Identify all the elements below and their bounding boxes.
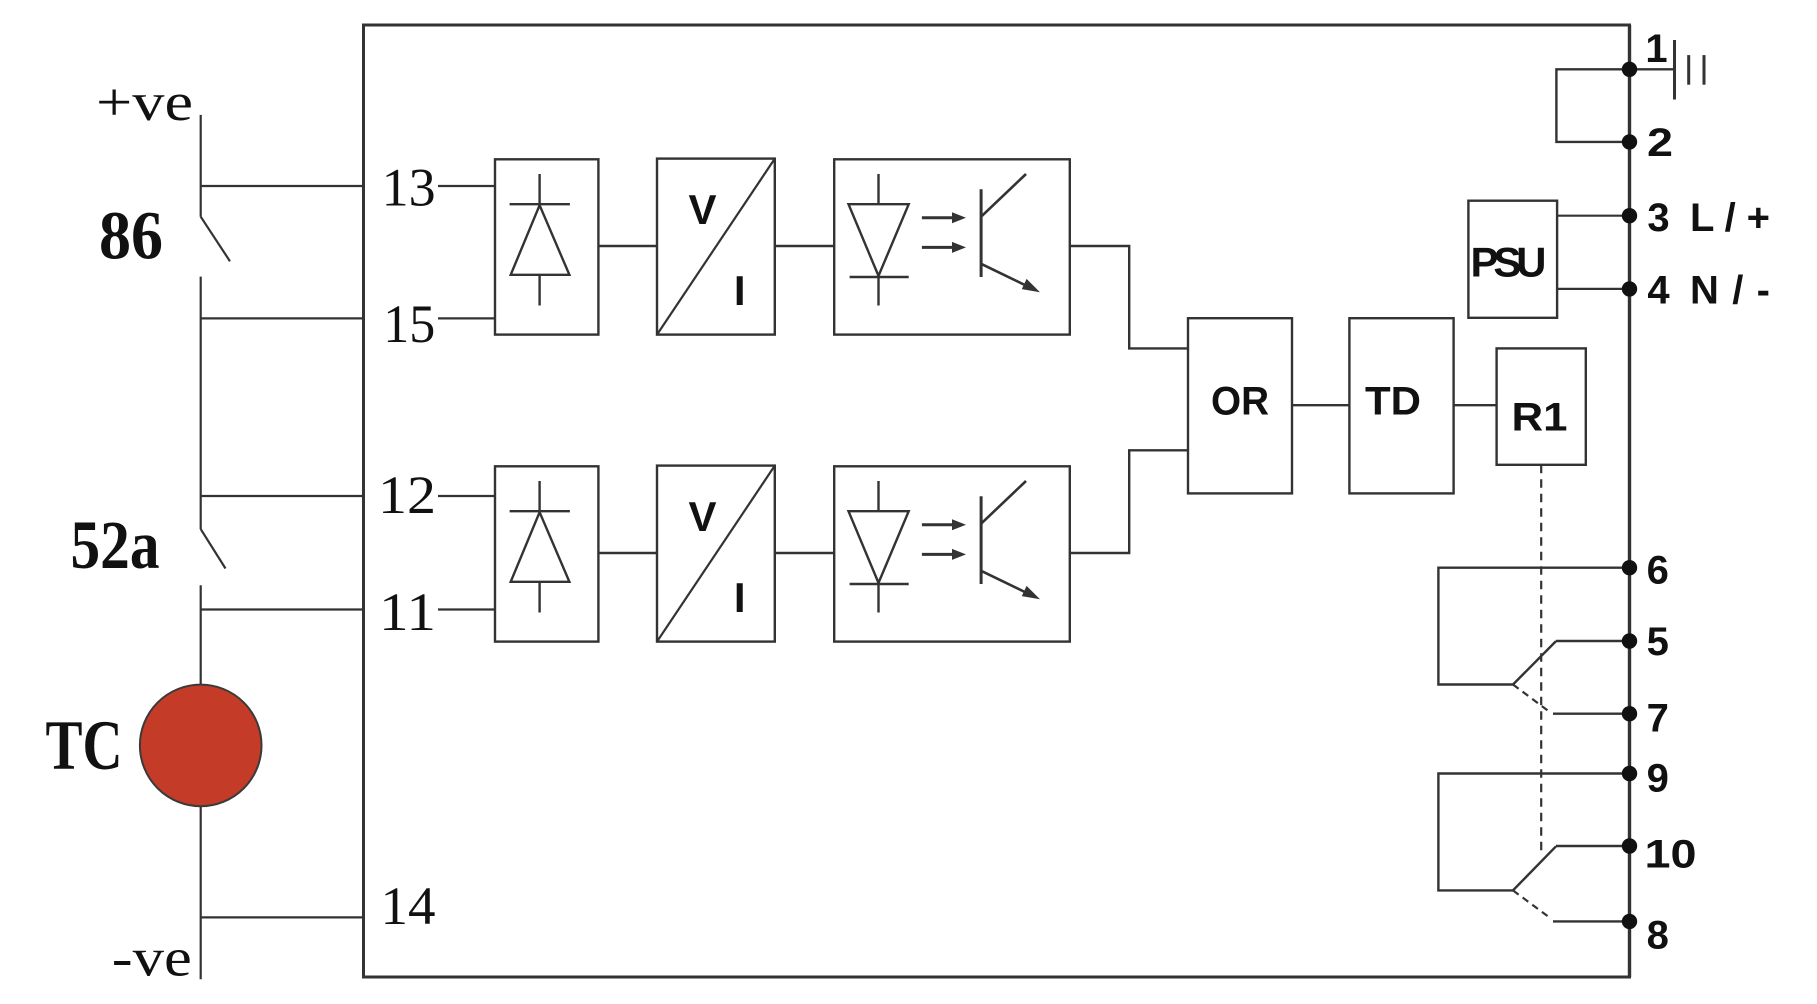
svg-text:52a: 52a: [71, 507, 160, 583]
svg-text:L / +: L / +: [1690, 196, 1770, 240]
svg-text:14: 14: [381, 876, 436, 936]
svg-text:PSU: PSU: [1471, 238, 1547, 285]
svg-text:N / -: N / -: [1690, 268, 1770, 312]
svg-text:4: 4: [1647, 268, 1670, 312]
svg-text:5: 5: [1647, 620, 1669, 664]
svg-text:86: 86: [99, 198, 163, 274]
svg-text:OR: OR: [1211, 380, 1269, 424]
svg-text:I: I: [734, 267, 746, 314]
svg-text:V: V: [688, 493, 716, 540]
svg-text:TD: TD: [1365, 380, 1421, 424]
svg-text:2: 2: [1647, 121, 1673, 165]
svg-text:I: I: [734, 574, 746, 621]
svg-text:-ve: -ve: [112, 928, 192, 988]
svg-text:8: 8: [1647, 914, 1669, 958]
svg-text:7: 7: [1647, 696, 1669, 740]
svg-text:6: 6: [1647, 548, 1669, 592]
svg-text:TC: TC: [46, 707, 123, 785]
svg-text:15: 15: [383, 294, 435, 354]
svg-text:R1: R1: [1512, 396, 1568, 440]
svg-text:1: 1: [1645, 27, 1667, 71]
svg-text:13: 13: [382, 158, 436, 218]
svg-text:9: 9: [1647, 757, 1669, 801]
svg-text:11: 11: [379, 582, 436, 642]
svg-text:+ve: +ve: [96, 72, 193, 132]
svg-text:V: V: [688, 186, 716, 233]
svg-text:12: 12: [378, 465, 436, 525]
svg-text:10: 10: [1645, 833, 1697, 877]
svg-text:3: 3: [1647, 196, 1669, 240]
